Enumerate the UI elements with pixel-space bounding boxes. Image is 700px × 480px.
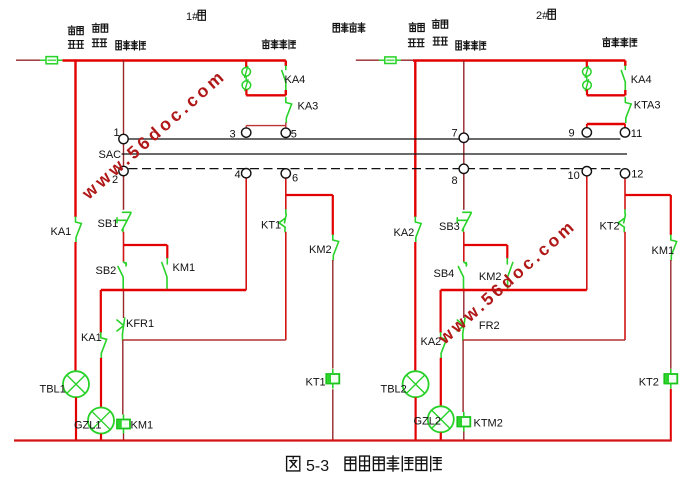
svg-text:KA4: KA4 (285, 74, 306, 86)
svg-text:7: 7 (452, 128, 458, 140)
svg-text:KT1: KT1 (306, 377, 326, 389)
svg-text:5: 5 (291, 129, 297, 141)
svg-text:GZL2: GZL2 (414, 416, 442, 428)
svg-text:1: 1 (114, 127, 120, 139)
svg-text:8: 8 (452, 175, 458, 187)
svg-text:KT1: KT1 (261, 220, 281, 232)
svg-text:KM1: KM1 (173, 262, 196, 274)
svg-text:TBL1: TBL1 (40, 384, 66, 396)
svg-text:1#: 1# (186, 11, 199, 23)
svg-text:4: 4 (235, 169, 241, 181)
svg-text:KM2: KM2 (309, 244, 332, 256)
svg-text:KA1: KA1 (51, 226, 72, 238)
svg-text:SB1: SB1 (98, 218, 119, 230)
svg-text:KA1: KA1 (81, 332, 102, 344)
svg-text:9: 9 (569, 128, 575, 140)
svg-text:12: 12 (631, 169, 643, 181)
svg-text:KA3: KA3 (298, 101, 319, 113)
svg-text:KT2: KT2 (600, 221, 620, 233)
svg-text:11: 11 (631, 128, 642, 140)
svg-text:KM1: KM1 (652, 245, 675, 257)
svg-text:3: 3 (230, 129, 236, 141)
svg-text:10: 10 (568, 170, 580, 182)
svg-text:SB2: SB2 (96, 265, 117, 277)
svg-text:KFR1: KFR1 (126, 318, 154, 330)
svg-text:KA4: KA4 (631, 74, 652, 86)
svg-text:KM1: KM1 (131, 420, 154, 432)
svg-text:FR2: FR2 (479, 320, 500, 332)
svg-text:5-3: 5-3 (306, 458, 329, 475)
svg-text:KTA3: KTA3 (634, 100, 661, 112)
svg-text:6: 6 (292, 173, 298, 185)
svg-text:KA2: KA2 (394, 227, 415, 239)
svg-text:SB3: SB3 (439, 221, 460, 233)
svg-text:KTM2: KTM2 (474, 418, 503, 430)
svg-text:2#: 2# (536, 10, 549, 22)
svg-text:TBL2: TBL2 (381, 384, 407, 396)
svg-text:KT2: KT2 (639, 377, 659, 389)
svg-text:GZL1: GZL1 (74, 420, 102, 432)
svg-text:SB4: SB4 (434, 268, 455, 280)
